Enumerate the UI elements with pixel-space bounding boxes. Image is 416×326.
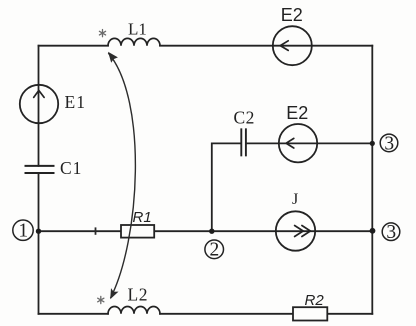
- svg-text:2: 2: [210, 240, 220, 261]
- svg-text:C2: C2: [234, 108, 255, 128]
- svg-text:L1: L1: [128, 19, 147, 38]
- svg-text:C1: C1: [60, 158, 82, 178]
- svg-text:J: J: [292, 191, 298, 208]
- svg-text:3: 3: [384, 133, 394, 154]
- svg-text:R1: R1: [133, 209, 152, 226]
- svg-text:E1: E1: [65, 92, 86, 112]
- svg-text:3: 3: [386, 222, 396, 243]
- svg-text:R2: R2: [305, 292, 325, 309]
- svg-text:L2: L2: [128, 285, 148, 305]
- svg-text:E2: E2: [281, 5, 303, 25]
- svg-text:E2: E2: [286, 103, 308, 123]
- svg-text:1: 1: [18, 221, 28, 242]
